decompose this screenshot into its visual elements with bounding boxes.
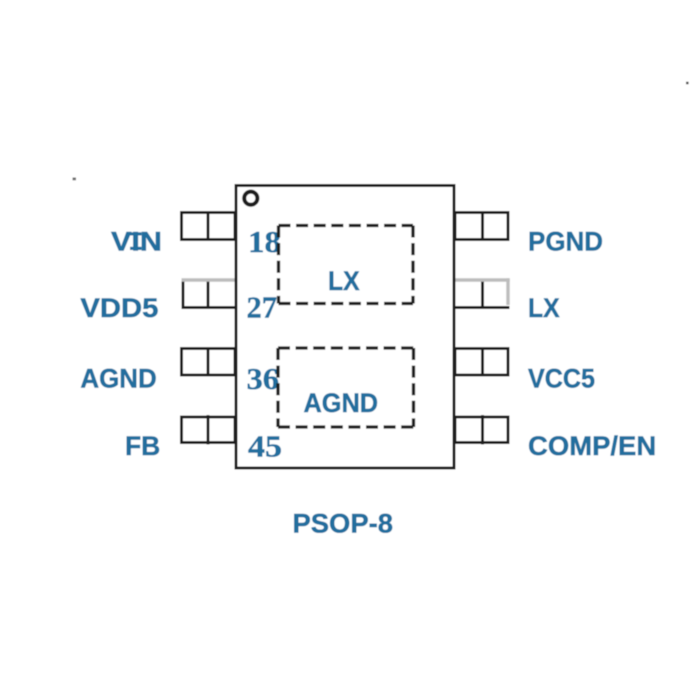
svg-text:18: 18 <box>248 224 281 259</box>
svg-text:PSOP-8: PSOP-8 <box>293 509 394 539</box>
svg-text:36: 36 <box>247 361 280 396</box>
svg-text:PGND: PGND <box>528 227 603 257</box>
svg-text:VCC5: VCC5 <box>528 364 595 394</box>
svg-text:AGND: AGND <box>304 388 379 418</box>
svg-text:27: 27 <box>247 290 278 325</box>
svg-text:FB: FB <box>125 431 160 461</box>
svg-text:AGND: AGND <box>80 364 156 394</box>
svg-text:COMP/EN: COMP/EN <box>528 431 656 461</box>
svg-text:VDD5: VDD5 <box>80 293 158 323</box>
svg-text:45: 45 <box>248 429 282 464</box>
svg-text:LX: LX <box>528 293 560 323</box>
svg-text:VIN: VIN <box>111 227 162 257</box>
svg-text:LX: LX <box>328 266 360 296</box>
